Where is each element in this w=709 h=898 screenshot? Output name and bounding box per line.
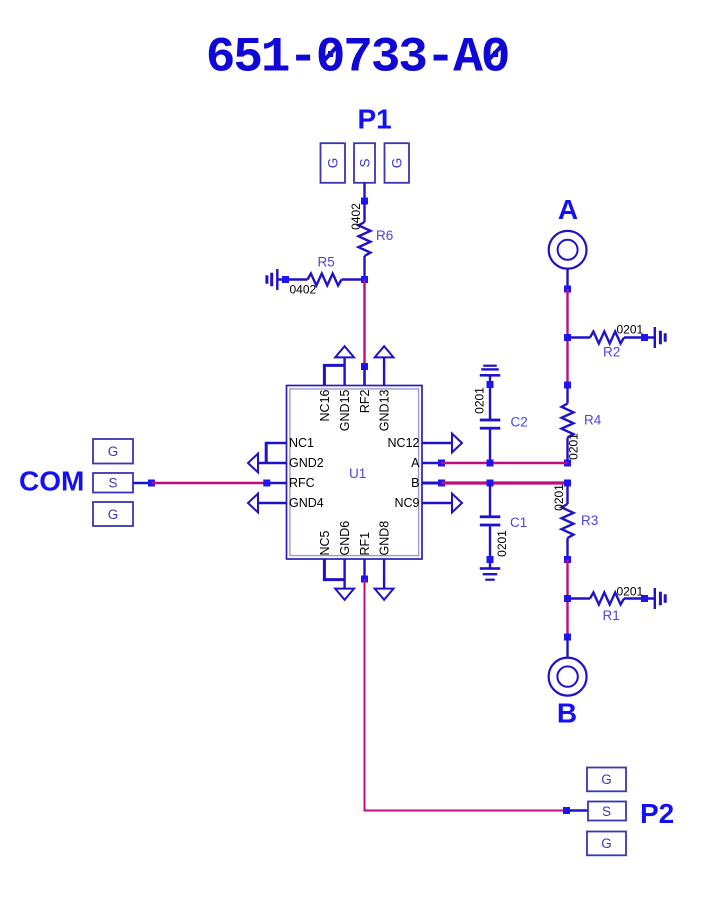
svg-text:B: B	[557, 698, 577, 729]
svg-text:G: G	[108, 507, 119, 522]
svg-text:G: G	[108, 444, 119, 459]
svg-text:GND4: GND4	[289, 496, 324, 510]
svg-text:G: G	[601, 772, 612, 787]
svg-text:0201: 0201	[617, 323, 644, 337]
svg-text:A: A	[558, 194, 578, 225]
svg-text:651-0733-A0: 651-0733-A0	[206, 30, 509, 86]
svg-text:P2: P2	[640, 798, 674, 829]
svg-text:NC9: NC9	[394, 496, 419, 510]
svg-text:GND8: GND8	[378, 521, 392, 556]
svg-text:RF2: RF2	[358, 389, 372, 413]
svg-text:RF1: RF1	[358, 532, 372, 556]
svg-text:R5: R5	[318, 255, 335, 270]
svg-text:G: G	[601, 836, 612, 851]
svg-text:A: A	[411, 456, 420, 470]
svg-text:NC5: NC5	[318, 530, 332, 555]
svg-text:G: G	[390, 158, 405, 169]
svg-text:0201: 0201	[617, 585, 644, 599]
svg-text:0201: 0201	[567, 433, 581, 460]
svg-text:0201: 0201	[552, 484, 566, 511]
svg-text:GND6: GND6	[338, 521, 352, 556]
svg-text:COM: COM	[19, 466, 84, 497]
svg-text:U1: U1	[349, 466, 366, 481]
svg-text:NC12: NC12	[388, 436, 420, 450]
svg-text:C1: C1	[510, 515, 527, 530]
svg-text:C2: C2	[511, 415, 528, 430]
svg-text:GND13: GND13	[378, 389, 392, 431]
svg-text:0402: 0402	[349, 203, 363, 230]
svg-text:GND15: GND15	[338, 389, 352, 431]
svg-text:R3: R3	[581, 513, 598, 528]
svg-text:RFC: RFC	[289, 476, 315, 490]
svg-text:S: S	[357, 158, 372, 167]
svg-text:R6: R6	[376, 228, 393, 243]
svg-text:R4: R4	[584, 413, 602, 428]
svg-text:B: B	[411, 476, 419, 490]
svg-text:R2: R2	[603, 345, 620, 360]
svg-text:NC16: NC16	[318, 389, 332, 421]
svg-text:R1: R1	[603, 608, 620, 623]
svg-text:NC1: NC1	[289, 436, 314, 450]
svg-text:GND2: GND2	[289, 456, 324, 470]
svg-text:S: S	[108, 476, 117, 491]
svg-text:P1: P1	[358, 104, 392, 135]
svg-text:0402: 0402	[290, 283, 317, 297]
svg-text:G: G	[326, 158, 341, 169]
svg-text:0201: 0201	[473, 387, 487, 414]
svg-text:0201: 0201	[495, 530, 509, 557]
svg-text:S: S	[602, 804, 611, 819]
